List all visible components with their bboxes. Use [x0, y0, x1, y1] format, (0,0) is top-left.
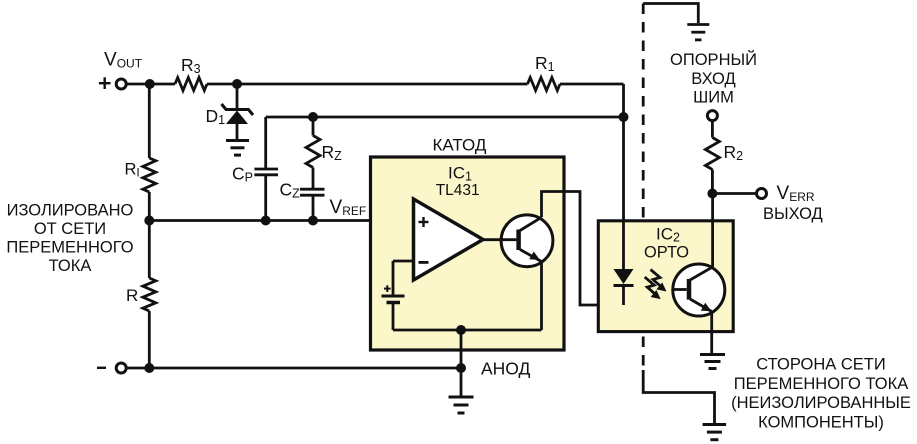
wire boundary bottom elbow — [643, 370, 714, 423]
svg-text:VREF: VREF — [330, 197, 367, 218]
svg-text:АНОД: АНОД — [481, 359, 531, 379]
ОПОРНЫЙ ВХОД ШИМ label — [670, 50, 757, 106]
node junction CZ bottom — [308, 216, 318, 226]
wire anode drop — [460, 330, 463, 368]
capacitor CZ — [280, 180, 325, 221]
isolation boundary dashed line — [642, 4, 645, 371]
svg-text:ШИМ: ШИМ — [693, 88, 734, 106]
svg-text:СТОРОНА СЕТИ: СТОРОНА СЕТИ — [756, 356, 885, 374]
wire top rail — [128, 84, 624, 117]
svg-text:R3: R3 — [181, 55, 201, 76]
resistor R — [126, 278, 156, 311]
wire Q1 collector out — [542, 192, 624, 306]
wire top boundary elbow — [643, 4, 698, 24]
optocoupler IC2 box — [598, 221, 733, 332]
svg-text:CZ: CZ — [280, 180, 301, 201]
wire Q1 emitter down — [540, 262, 543, 331]
LED (opto) — [614, 117, 634, 305]
wire VREF rail — [149, 219, 413, 222]
resistor RI — [125, 158, 156, 192]
wire battery/emitter rail — [393, 329, 542, 332]
terminal + (VOUT) — [99, 50, 143, 90]
wire left rail — [148, 84, 151, 368]
svg-text:ВЫХОД: ВЫХОД — [763, 205, 823, 223]
svg-text:(НЕИЗОЛИРОВАННЫЕ: (НЕИЗОЛИРОВАННЫЕ — [731, 394, 911, 412]
light arrows — [645, 270, 667, 300]
wire Q2 collector to VERR node — [711, 194, 714, 267]
resistor RZ — [306, 117, 342, 189]
wire to VERR terminal — [712, 192, 755, 195]
svg-text:R: R — [126, 286, 138, 305]
capacitor CP — [232, 164, 278, 221]
AC side text — [731, 356, 911, 432]
svg-text:КАТОД: КАТОД — [433, 136, 487, 155]
svg-text:RZ: RZ — [322, 142, 343, 163]
svg-text:КОМПОНЕНТЫ): КОМПОНЕНТЫ) — [758, 414, 884, 432]
svg-text:VERR: VERR — [777, 183, 815, 204]
svg-text:ОРТО: ОРТО — [644, 244, 689, 262]
terminal - (bottom) — [97, 363, 126, 373]
node junction left rail top — [145, 79, 155, 89]
resistor R1 — [528, 53, 561, 90]
phototransistor Q2 — [673, 264, 725, 316]
svg-text:ПЕРЕМЕННОГО ТОКА: ПЕРЕМЕННОГО ТОКА — [734, 375, 909, 393]
svg-text:ВХОД: ВХОД — [691, 70, 735, 88]
resistor R3 — [175, 55, 207, 91]
node junction CP bottom — [261, 216, 271, 226]
node junction VERR — [707, 189, 717, 199]
svg-text:RI: RI — [125, 161, 140, 180]
svg-text:ОТ СЕТИ: ОТ СЕТИ — [34, 220, 106, 238]
wire y=117 rail — [266, 117, 624, 168]
svg-text:ПЕРЕМЕННОГО: ПЕРЕМЕННОГО — [6, 239, 133, 257]
svg-text:ИЗОЛИРОВАНО: ИЗОЛИРОВАНО — [7, 202, 134, 220]
isolation text left — [6, 202, 133, 275]
transistor Q1 — [483, 215, 553, 267]
wire Q2 emitter to ground — [710, 312, 713, 354]
node junction RZ top — [308, 112, 318, 122]
wire minus input to battery — [393, 261, 414, 296]
node junction VREF tap — [144, 216, 154, 226]
terminal ШИМ input — [707, 111, 717, 121]
ground top right — [687, 25, 709, 40]
node junction LED branch — [619, 112, 629, 122]
node junction АНОД — [456, 363, 466, 373]
resistor R2 — [705, 122, 743, 194]
wire bottom rail — [128, 367, 462, 370]
svg-text:ОПОРНЫЙ: ОПОРНЫЙ — [670, 50, 757, 69]
wire АНОД ground — [460, 368, 463, 396]
ground below АНОД — [449, 397, 474, 413]
svg-text:CP: CP — [232, 164, 253, 185]
svg-text:D1: D1 — [206, 106, 226, 127]
svg-text:VOUT: VOUT — [104, 50, 143, 71]
node junction anode inside box — [456, 325, 466, 335]
terminal VERR — [757, 183, 823, 223]
ground opto emitter — [700, 355, 725, 369]
zener diode D1 — [206, 84, 254, 140]
svg-text:ТОКА: ТОКА — [49, 257, 92, 275]
svg-text:R2: R2 — [724, 142, 744, 163]
svg-text:TL431: TL431 — [436, 182, 480, 199]
node junction bottom left — [144, 363, 154, 373]
ground below D1 — [226, 141, 249, 156]
op-amp block IC1 TL431 box — [371, 157, 565, 350]
op-amp U1 — [414, 199, 484, 280]
node junction D1 top — [232, 79, 242, 89]
battery reference — [382, 285, 405, 330]
svg-text:R1: R1 — [535, 53, 555, 74]
ground bottom right — [703, 425, 727, 440]
